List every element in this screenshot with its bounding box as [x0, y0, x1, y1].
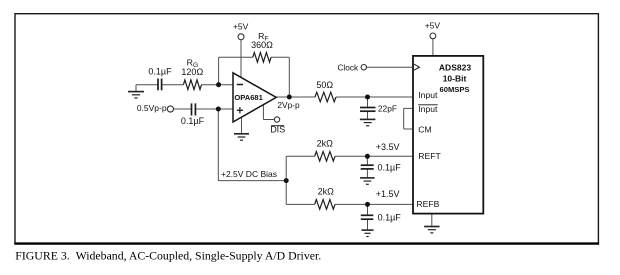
svg-text:REFT: REFT — [418, 151, 441, 161]
svg-text:2kΩ: 2kΩ — [317, 138, 334, 148]
svg-text:REFB: REFB — [416, 199, 439, 209]
svg-text:22pF: 22pF — [378, 103, 397, 113]
svg-text:DIS: DIS — [270, 125, 285, 135]
svg-text:50Ω: 50Ω — [316, 80, 333, 90]
svg-text:+1.5V: +1.5V — [376, 189, 400, 199]
svg-text:+5V: +5V — [233, 22, 249, 32]
svg-text:ADS823: ADS823 — [439, 62, 471, 72]
svg-text:Input: Input — [418, 90, 438, 100]
svg-text:0.5Vp-p: 0.5Vp-p — [137, 103, 167, 113]
svg-text:Input: Input — [418, 104, 438, 114]
svg-text:0.1µF: 0.1µF — [181, 116, 205, 126]
svg-text:2Vp-p: 2Vp-p — [277, 100, 300, 110]
svg-text:360Ω: 360Ω — [251, 40, 273, 50]
svg-text:2kΩ: 2kΩ — [318, 186, 335, 196]
svg-text:OPA681: OPA681 — [234, 93, 263, 102]
svg-text:+3.5V: +3.5V — [376, 142, 400, 152]
svg-text:0.1µF: 0.1µF — [148, 66, 172, 76]
svg-text:+5V: +5V — [425, 21, 441, 31]
svg-text:0.1µF: 0.1µF — [378, 213, 402, 223]
svg-text:+2.5V DC Bias: +2.5V DC Bias — [221, 169, 277, 179]
svg-text:Clock: Clock — [337, 63, 359, 73]
svg-text:FIGURE 3. Wideband, AC-Coupled: FIGURE 3. Wideband, AC-Coupled, Single-S… — [15, 249, 321, 263]
svg-text:10-Bit: 10-Bit — [443, 74, 467, 84]
svg-text:60MSPS: 60MSPS — [440, 85, 470, 94]
svg-text:0.1µF: 0.1µF — [378, 163, 402, 173]
svg-text:CM: CM — [418, 124, 431, 134]
